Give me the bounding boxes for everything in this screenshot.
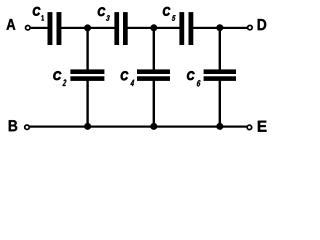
wire top rail: C1 to C3 [61,27,115,29]
wire vertical: top node 2 down to C4 [153,28,155,70]
node label A [7,19,16,30]
capacitor C6 [204,69,236,81]
terminal E (open circle) [247,125,252,129]
capacitor C4 [137,69,170,81]
wire top rail: C3 to C5 [127,27,179,29]
label C2 [53,71,66,86]
wire vertical: C6 down to bottom rail [219,81,221,127]
wire vertical: C4 down to bottom rail [153,81,155,127]
junction top node 2 [150,24,157,31]
wire top rail: C5 to terminal D [193,27,250,29]
label C5 [163,7,176,21]
capacitor C1 [48,12,62,45]
terminal B (open circle) [25,125,30,130]
node label B [9,120,17,131]
junction top node 1 [84,24,91,31]
wire vertical: C2 down to bottom rail [86,81,88,127]
label C6 [187,71,200,86]
junction bottom node 3 [216,123,223,130]
junction top node 3 [216,24,223,31]
wire top rail: terminal A to C1 [28,27,48,29]
wire bottom rail: terminal B to terminal E [27,126,249,128]
junction bottom node 2 [150,123,157,130]
node label D [258,19,267,30]
capacitor C3 [114,12,127,45]
junction bottom node 1 [84,123,91,130]
capacitor C2 [70,69,104,81]
node label E [258,121,267,132]
wire vertical: top node 1 down to C2 [86,28,88,70]
capacitor C5 [179,12,193,45]
label C1 [33,7,44,21]
label C3 [98,7,110,20]
terminal D (open circle) [248,25,253,30]
wire vertical: top node 3 down to C6 [219,28,221,70]
label C4 [121,71,134,86]
terminal A (open circle) [26,25,31,30]
